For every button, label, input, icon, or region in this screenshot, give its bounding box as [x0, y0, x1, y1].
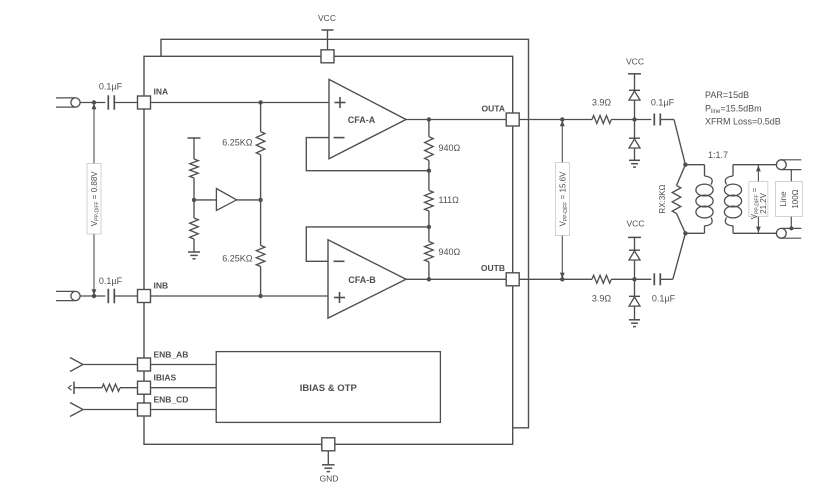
svg-text:940Ω: 940Ω: [439, 247, 461, 257]
svg-text:OUTB: OUTB: [481, 263, 505, 273]
svg-text:0.1µF: 0.1µF: [651, 98, 675, 108]
svg-text:CFA-B: CFA-B: [348, 275, 376, 285]
svg-text:100Ω: 100Ω: [791, 189, 800, 208]
svg-text:VCC: VCC: [318, 13, 336, 23]
svg-text:3.9Ω: 3.9Ω: [592, 98, 612, 108]
svg-text:IBIAS & OTP: IBIAS & OTP: [300, 383, 358, 394]
svg-text:IBIAS: IBIAS: [154, 373, 177, 383]
svg-text:ENB_CD: ENB_CD: [154, 395, 189, 405]
svg-text:OUTA: OUTA: [482, 104, 505, 114]
svg-text:PAR=15dB: PAR=15dB: [705, 90, 749, 100]
svg-text:VCC: VCC: [627, 219, 645, 229]
svg-text:RX:3KΩ: RX:3KΩ: [658, 184, 667, 213]
svg-text:6.25KΩ: 6.25KΩ: [222, 138, 253, 148]
svg-text:111Ω: 111Ω: [439, 195, 460, 205]
svg-text:1:1.7: 1:1.7: [708, 150, 728, 160]
svg-text:940Ω: 940Ω: [439, 143, 461, 153]
svg-text:0.1µF: 0.1µF: [99, 276, 123, 286]
svg-text:INA: INA: [154, 87, 169, 97]
svg-text:21.2V: 21.2V: [759, 192, 768, 214]
svg-text:3.9Ω: 3.9Ω: [592, 294, 612, 304]
svg-text:XFRM Loss=0.5dB: XFRM Loss=0.5dB: [705, 117, 781, 127]
svg-text:GND: GND: [320, 474, 339, 484]
svg-text:VCC: VCC: [626, 57, 644, 67]
svg-text:ENB_AB: ENB_AB: [154, 350, 189, 360]
svg-text:Line: Line: [779, 191, 788, 207]
svg-text:INB: INB: [154, 281, 169, 291]
svg-text:0.1µF: 0.1µF: [652, 294, 676, 304]
svg-text:0.1µF: 0.1µF: [99, 82, 123, 92]
svg-text:CFA-A: CFA-A: [348, 115, 376, 125]
svg-text:6.25KΩ: 6.25KΩ: [222, 254, 253, 264]
